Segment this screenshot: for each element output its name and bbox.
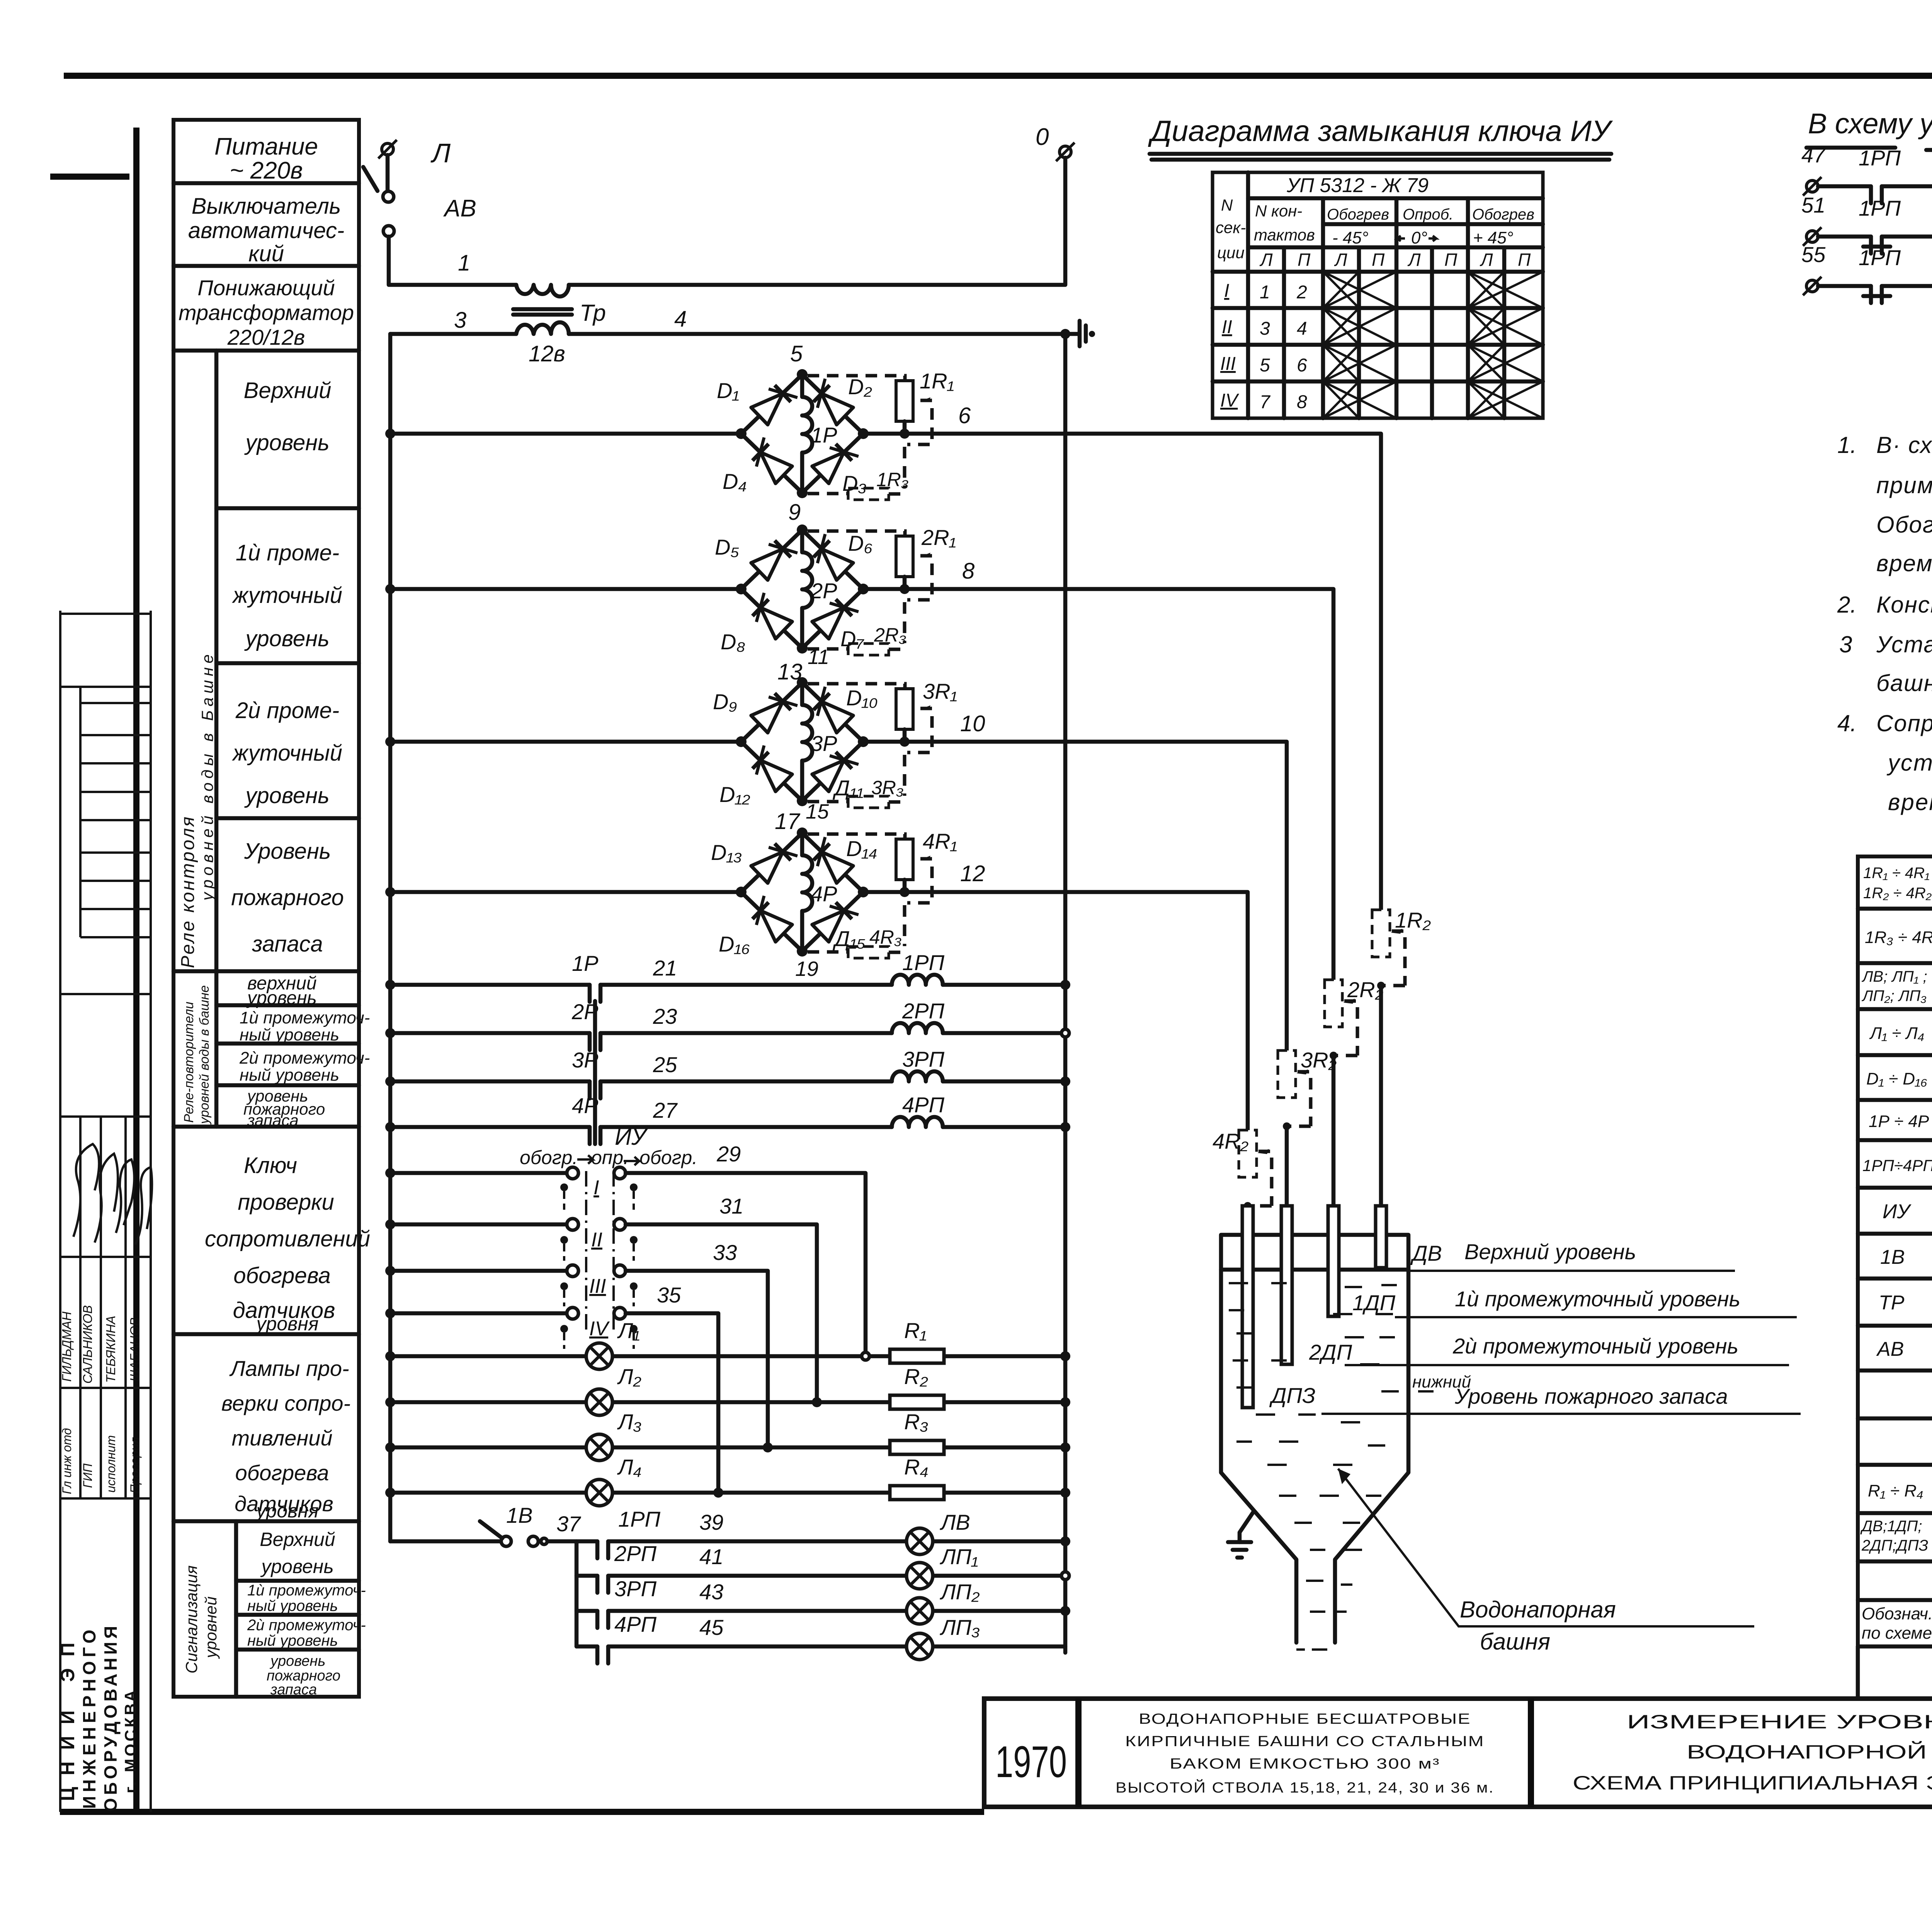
svg-text:жуточный: жуточный — [231, 583, 342, 608]
row 39 contact 1РП lamp ЛВ — [597, 1507, 1070, 1558]
svg-text:ИНЖЕНЕРНОГО: ИНЖЕНЕРНОГО — [79, 1626, 99, 1809]
svg-text:47: 47 — [1801, 143, 1826, 167]
svg-text:Л: Л — [1407, 250, 1421, 270]
signatures scribbles — [73, 1144, 99, 1237]
svg-text:жуточный: жуточный — [231, 741, 342, 766]
svg-text:- 45°: - 45° — [1332, 228, 1368, 247]
svg-text:Верхний уровень: Верхний уровень — [1464, 1239, 1636, 1264]
water hatching — [1229, 1283, 1434, 1612]
transformer Тр — [513, 285, 606, 366]
bridge rectifier 1Р with 1R1 1R3 — [385, 341, 954, 500]
heater resistor 4R2 — [1213, 1129, 1272, 1210]
svg-text:1РП: 1РП — [618, 1507, 660, 1531]
lamp row Л1 with resistor R1 — [385, 1318, 1070, 1369]
svg-text:3: 3 — [1260, 318, 1270, 339]
svg-text:1Р ÷ 4Р: 1Р ÷ 4Р — [1869, 1112, 1929, 1131]
svg-text:башня: башня — [1480, 1629, 1550, 1655]
level line 2ДП — [1345, 1334, 1789, 1365]
svg-text:ЛП₃: ЛП₃ — [940, 1615, 980, 1639]
svg-text:D₄: D₄ — [723, 469, 747, 494]
ground at transformer neutral — [1060, 321, 1095, 346]
svg-text:трансформатор: трансформатор — [179, 300, 354, 325]
svg-text:П: П — [1298, 250, 1311, 270]
svg-text:1R₃: 1R₃ — [876, 469, 909, 490]
svg-text:1В: 1В — [1880, 1246, 1905, 1268]
svg-text:ЛВ: ЛВ — [940, 1510, 970, 1534]
svg-text:ЦНИИ ЭП: ЦНИИ ЭП — [57, 1631, 78, 1801]
svg-text:13: 13 — [777, 659, 803, 684]
svg-text:3R₂: 3R₂ — [1301, 1048, 1337, 1072]
svg-text:4РП: 4РП — [902, 1093, 944, 1117]
svg-text:D₁₀: D₁₀ — [846, 686, 878, 710]
sensor electrode 1ДП — [1328, 1206, 1396, 1316]
svg-text:220/12в: 220/12в — [227, 325, 305, 349]
svg-text:1ѝ промежуточ-: 1ѝ промежуточ- — [247, 1582, 366, 1599]
svg-text:ДВ: ДВ — [1410, 1241, 1442, 1265]
svg-text:D₁: D₁ — [717, 378, 739, 403]
svg-text:~ 220в: ~ 220в — [230, 157, 303, 184]
svg-text:Л: Л — [430, 138, 451, 168]
svg-text:II: II — [1222, 317, 1232, 337]
svg-text:время резисторами R₁ ÷ R₄: время резисторами R₁ ÷ R₄ — [1876, 550, 1932, 576]
svg-text:4R₁: 4R₁ — [923, 829, 957, 853]
svg-text:1РП: 1РП — [1859, 245, 1901, 270]
svg-text:запаса: запаса — [252, 931, 323, 957]
sensor electrode ДВ — [1376, 1206, 1386, 1268]
svg-text:2РП: 2РП — [902, 999, 944, 1023]
row 41 contact 2РП lamp ЛП1 — [577, 1541, 1069, 1593]
svg-text:D₃: D₃ — [842, 471, 867, 495]
svg-text:D₂: D₂ — [848, 375, 872, 399]
left label table — [173, 120, 370, 1698]
svg-text:Проверил: Проверил — [128, 1437, 142, 1493]
svg-text:2.: 2. — [1837, 592, 1857, 618]
svg-text:4: 4 — [1297, 318, 1307, 339]
svg-text:R₃: R₃ — [904, 1410, 929, 1434]
level line 1ДП — [1395, 1287, 1797, 1317]
svg-text:башни см. черт. АВ-15: башни см. черт. АВ-15 — [1876, 670, 1932, 696]
svg-text:обогрева: обогрева — [235, 1461, 329, 1485]
svg-text:8: 8 — [962, 558, 975, 584]
key diagram table УП5312-Ж79 — [1213, 172, 1543, 418]
svg-text:ВОДОНАПОРНОЙ · БАШНИ: ВОДОНАПОРНОЙ · БАШНИ — [1687, 1741, 1932, 1763]
svg-text:R₂: R₂ — [904, 1364, 928, 1389]
svg-text:43: 43 — [699, 1580, 723, 1604]
svg-text:уровней воды в башне: уровней воды в башне — [197, 985, 212, 1125]
ИУ row IV / wire 35 — [385, 1283, 718, 1493]
svg-text:9: 9 — [788, 500, 801, 525]
svg-text:кий: кий — [248, 241, 284, 266]
svg-text:Установку датчиков в баке: Установку датчиков в баке водонапорной — [1876, 632, 1932, 657]
svg-text:2R₃: 2R₃ — [874, 624, 906, 646]
svg-text:уровень: уровень — [244, 626, 329, 651]
svg-text:55: 55 — [1801, 242, 1826, 267]
svg-text:23: 23 — [653, 1004, 677, 1028]
svg-text:Уровень: Уровень — [244, 839, 331, 864]
contact 1РП 55-57 — [1801, 242, 1932, 303]
svg-text:3РП: 3РП — [902, 1047, 944, 1071]
svg-text:51: 51 — [1801, 193, 1825, 217]
svg-text:17: 17 — [775, 809, 801, 834]
svg-text:В· схеме регулирования уровн: В· схеме регулирования уровня воды в баш… — [1876, 432, 1932, 458]
primary return wire to terminal 0 — [569, 158, 1065, 285]
svg-text:ВЫСОТОЙ СТВОЛА 15,18, 21, 24,: ВЫСОТОЙ СТВОЛА 15,18, 21, 24, 30 и 36 м. — [1116, 1779, 1494, 1796]
relay row 4Р/27 with coil 4РП — [385, 1093, 1070, 1144]
bridge rectifier 3Р — [385, 659, 957, 823]
svg-text:5: 5 — [1260, 355, 1270, 376]
svg-text:25: 25 — [653, 1052, 677, 1077]
notes Примечания — [1837, 384, 1932, 815]
svg-text:1R₁: 1R₁ — [920, 369, 954, 393]
svg-text:Питание: Питание — [214, 133, 318, 160]
svg-text:уровня: уровня — [255, 1313, 319, 1335]
wire 8 — [863, 558, 1333, 981]
svg-text:ТР: ТР — [1879, 1292, 1905, 1314]
terminal 0 — [1036, 124, 1075, 161]
svg-text:R₁ ÷ R₄: R₁ ÷ R₄ — [1868, 1481, 1923, 1500]
svg-text:I: I — [1224, 281, 1229, 301]
svg-text:3R₁: 3R₁ — [923, 679, 957, 703]
svg-text:12в: 12в — [529, 341, 565, 366]
svg-text:6: 6 — [958, 403, 971, 428]
svg-text:ЛВ; ЛП₁ ;: ЛВ; ЛП₁ ; — [1861, 968, 1927, 985]
svg-text:уровня: уровня — [255, 1500, 319, 1522]
svg-text:Сигнализация: Сигнализация — [182, 1565, 201, 1674]
svg-text:Обогрев датчиков производитс: Обогрев датчиков производится в зимнее — [1876, 512, 1932, 538]
wire 10 — [863, 711, 1287, 1051]
ИУ row I / wire 29 — [385, 1142, 866, 1356]
svg-text:КИРПИЧНЫЕ БАШНИ СО СТАЛЬНЫМ: КИРПИЧНЫЕ БАШНИ СО СТАЛЬНЫМ — [1125, 1733, 1485, 1750]
svg-text:37: 37 — [556, 1512, 581, 1536]
svg-text:III: III — [589, 1275, 606, 1297]
svg-text:1ѝ промежуточный уровень: 1ѝ промежуточный уровень — [1455, 1287, 1740, 1311]
breaker АВ — [363, 155, 476, 237]
left supply bus — [388, 334, 393, 1541]
svg-text:1РП: 1РП — [902, 950, 944, 975]
svg-text:уровень: уровень — [244, 783, 329, 808]
svg-text:уровень: уровень — [260, 1556, 333, 1577]
svg-text:D₈: D₈ — [721, 630, 745, 654]
svg-text:Выключатель: Выключатель — [192, 194, 341, 219]
svg-text:1R₃ ÷ 4R₃: 1R₃ ÷ 4R₃ — [1865, 928, 1932, 947]
svg-text:1970: 1970 — [995, 1737, 1067, 1787]
svg-text:Уровень пожарного запаса: Уровень пожарного запаса — [1454, 1384, 1728, 1408]
svg-text:1РП: 1РП — [1859, 146, 1901, 170]
svg-text:2ѝ проме-: 2ѝ проме- — [235, 698, 339, 723]
water tower tank — [1221, 1235, 1408, 1650]
svg-text:уровень: уровень — [246, 988, 317, 1008]
svg-text:уровень: уровень — [269, 1653, 325, 1669]
svg-text:АВ: АВ — [443, 195, 476, 222]
wire 4 — [569, 306, 1065, 334]
svg-text:3Р: 3Р — [811, 731, 837, 756]
contact 1РП 47-49 — [1801, 143, 1932, 203]
svg-text:3R₃: 3R₃ — [871, 777, 904, 798]
lamp row Л3 with resistor R3 — [385, 1410, 1070, 1461]
svg-text:Л: Л — [1259, 250, 1273, 270]
svg-text:пожарного: пожарного — [231, 885, 344, 910]
svg-text:3: 3 — [1839, 632, 1852, 657]
svg-text:D₁₆: D₁₆ — [719, 932, 750, 956]
svg-text:4: 4 — [674, 306, 687, 332]
svg-text:САЛЬНИКОВ: САЛЬНИКОВ — [80, 1305, 95, 1384]
svg-text:Обогрев: Обогрев — [1327, 206, 1389, 223]
svg-text:4РП: 4РП — [614, 1612, 656, 1636]
svg-text:тактов: тактов — [1254, 226, 1315, 244]
svg-text:3: 3 — [454, 308, 466, 333]
svg-text:8: 8 — [1297, 392, 1307, 412]
svg-text:N кон-: N кон- — [1255, 202, 1302, 220]
svg-text:СХЕМА ПРИНЦИПИАЛЬНАЯ ЭЛЕК: СХЕМА ПРИНЦИПИАЛЬНАЯ ЭЛЕКТРИЧЕСКАЯ — [1573, 1772, 1932, 1794]
svg-text:П: П — [1518, 250, 1531, 270]
switch 1В and node 37 — [390, 1503, 597, 1546]
wire 3 — [390, 308, 516, 334]
svg-text:2ДП: 2ДП — [1309, 1340, 1352, 1364]
svg-text:21: 21 — [653, 956, 677, 980]
svg-text:1РП÷4РП: 1РП÷4РП — [1862, 1156, 1932, 1175]
svg-text:D₇: D₇ — [840, 627, 864, 651]
svg-text:ции: ции — [1217, 243, 1245, 262]
svg-text:сек-: сек- — [1216, 218, 1246, 237]
relay row 3Р/25 with coil 3РП — [385, 1047, 1070, 1098]
svg-text:D₆: D₆ — [848, 531, 872, 555]
svg-text:45: 45 — [699, 1615, 724, 1639]
svg-text:+ 45°: + 45° — [1473, 228, 1513, 247]
svg-text:1ѝ промежуточ-: 1ѝ промежуточ- — [240, 1008, 370, 1027]
svg-text:Реле контроля: Реле контроля — [178, 815, 198, 968]
svg-text:ный уровень: ный уровень — [247, 1632, 338, 1649]
svg-text:2R₁: 2R₁ — [921, 525, 956, 550]
middle neutral bus — [1063, 334, 1068, 1653]
svg-text:2ДП;ДПЗ: 2ДП;ДПЗ — [1861, 1537, 1928, 1554]
svg-text:П: П — [1444, 250, 1458, 270]
svg-text:запаса: запаса — [270, 1682, 317, 1698]
svg-text:Обогрев: Обогрев — [1472, 206, 1534, 223]
terminal Л — [378, 138, 451, 168]
svg-text:7: 7 — [1260, 392, 1271, 412]
tank ground — [1228, 1511, 1254, 1558]
svg-text:Понижающий: Понижающий — [197, 276, 335, 300]
svg-text:0: 0 — [1036, 124, 1049, 150]
svg-text:Лампы про-: Лампы про- — [229, 1356, 349, 1381]
svg-text:1Р: 1Р — [811, 423, 837, 447]
svg-text:ШАБАНОВ: ШАБАНОВ — [128, 1318, 142, 1382]
svg-text:Сопротивления, показанные п: Сопротивления, показанные пунктиром , — [1876, 710, 1932, 736]
svg-text:Водонапорная: Водонапорная — [1460, 1597, 1616, 1622]
svg-text:D₁₂: D₁₂ — [719, 782, 750, 807]
svg-text:1: 1 — [1260, 282, 1270, 303]
callout водонапорная башня — [1338, 1469, 1754, 1655]
svg-text:2ѝ промежуточ-: 2ѝ промежуточ- — [247, 1617, 366, 1634]
svg-text:время наладки.: время наладки. — [1888, 789, 1932, 815]
svg-text:Л: Л — [1480, 250, 1493, 270]
svg-text:5: 5 — [790, 341, 803, 366]
svg-text:D₅: D₅ — [715, 535, 739, 559]
svg-text:31: 31 — [719, 1194, 743, 1218]
svg-text:обогр.: обогр. — [639, 1147, 697, 1168]
wire 1 — [389, 237, 516, 285]
svg-text:Гл инж отд: Гл инж отд — [60, 1428, 74, 1494]
svg-text:автоматичес-: автоматичес- — [188, 218, 344, 243]
svg-text:ВОДОНАПОРНЫЕ БЕСШАТРОВЫЕ: ВОДОНАПОРНЫЕ БЕСШАТРОВЫЕ — [1139, 1711, 1471, 1727]
svg-text:Обознач.: Обознач. — [1862, 1604, 1932, 1623]
svg-text:ЛП₂; ЛП₃: ЛП₂; ЛП₃ — [1861, 987, 1927, 1004]
svg-text:35: 35 — [657, 1283, 681, 1307]
svg-text:применяются датчики уровня: применяются датчики уровня с обогревом. — [1876, 472, 1932, 498]
svg-text:сопротивлений: сопротивлений — [205, 1226, 370, 1251]
section title В схему управления — [1806, 107, 1932, 150]
svg-text:2ѝ промежуточ-: 2ѝ промежуточ- — [239, 1049, 370, 1067]
wire 6 — [863, 403, 1381, 910]
svg-text:исполнит: исполнит — [104, 1435, 118, 1493]
left stamp column — [57, 611, 152, 1812]
svg-text:Тр: Тр — [580, 300, 606, 326]
svg-text:4R₂: 4R₂ — [1213, 1129, 1248, 1153]
svg-text:3РП: 3РП — [614, 1577, 656, 1601]
svg-text:39: 39 — [699, 1510, 723, 1534]
svg-text:11: 11 — [808, 645, 829, 669]
svg-text:1R₁ ÷ 4R₁: 1R₁ ÷ 4R₁ — [1863, 865, 1930, 882]
svg-text:П: П — [1372, 250, 1385, 270]
svg-text:устанавливаются при необход: устанавливаются при необходимости во — [1886, 750, 1932, 776]
svg-text:12: 12 — [960, 861, 985, 886]
svg-text:ОБОРУДОВАНИЯ: ОБОРУДОВАНИЯ — [100, 1623, 121, 1812]
svg-text:Л₂: Л₂ — [617, 1364, 641, 1389]
row 43 contact 3РП lamp ЛП2 — [577, 1577, 1070, 1628]
svg-text:уровень: уровень — [244, 430, 329, 455]
svg-text:2РП: 2РП — [614, 1541, 656, 1566]
svg-text:4R₃: 4R₃ — [869, 926, 902, 948]
svg-text:1Р: 1Р — [572, 951, 599, 976]
svg-text:1РП: 1РП — [1859, 196, 1901, 220]
lamp row Л2 with resistor R2 — [385, 1364, 1070, 1415]
svg-text:4Р: 4Р — [811, 882, 837, 906]
ИУ row III / wire 33 — [385, 1240, 768, 1447]
svg-text:верки сопро-: верки сопро- — [221, 1391, 350, 1415]
relay row 2Р/23 with coil 2РП — [385, 999, 1069, 1050]
svg-text:1R₂: 1R₂ — [1395, 908, 1431, 932]
svg-text:IV: IV — [1220, 390, 1239, 411]
svg-text:г. МОСКВА: г. МОСКВА — [121, 1688, 139, 1793]
svg-text:Д₁₅: Д₁₅ — [832, 926, 866, 951]
svg-text:Л₃: Л₃ — [617, 1410, 642, 1434]
svg-text:ный уровень: ный уровень — [247, 1597, 338, 1614]
svg-text:ДПЗ: ДПЗ — [1269, 1383, 1315, 1408]
svg-text:Верхний: Верхний — [244, 378, 332, 403]
svg-text:ный уровень: ный уровень — [240, 1066, 339, 1084]
equipment list table — [1858, 856, 1932, 1699]
svg-text:УП 5312 - Ж 79: УП 5312 - Ж 79 — [1286, 174, 1429, 197]
svg-text:ИЗМЕРЕНИЕ УРОВНЯ В БАК: ИЗМЕРЕНИЕ УРОВНЯ В БАКЕ — [1627, 1711, 1932, 1733]
svg-text:ный уровень: ный уровень — [240, 1025, 339, 1044]
heater resistor 1R2 — [1372, 908, 1431, 1206]
svg-text:ЛП₁: ЛП₁ — [940, 1544, 978, 1569]
relay row 1Р/21 with coil 1РП — [385, 950, 1070, 1002]
svg-text:Верхний: Верхний — [260, 1529, 335, 1550]
svg-text:R₁: R₁ — [904, 1318, 927, 1343]
svg-text:Диаграмма замыкания ключа И: Диаграмма замыкания ключа ИУ — [1148, 115, 1613, 148]
svg-text:N: N — [1221, 196, 1233, 214]
sensor electrode 2ДП — [1281, 1206, 1352, 1364]
bridge rectifier 4Р — [385, 809, 957, 981]
fire-control contact rows — [1801, 143, 1932, 303]
heater resistor 3R2 — [1278, 1048, 1337, 1206]
svg-text:ИУ: ИУ — [1883, 1200, 1912, 1223]
lamp row Л4 with resistor R4 — [385, 1455, 1070, 1506]
svg-text:1ѝ проме-: 1ѝ проме- — [236, 540, 339, 565]
title block — [984, 1699, 1932, 1807]
svg-text:ГИЛЬДМАН: ГИЛЬДМАН — [60, 1311, 74, 1382]
svg-text:тивлений: тивлений — [232, 1426, 333, 1450]
bridge rectifier 2Р — [385, 500, 956, 669]
svg-text:Реле-повторители: Реле-повторители — [182, 1002, 196, 1123]
row 45 contact 4РП lamp ЛП3 — [577, 1612, 1065, 1663]
svg-text:15: 15 — [806, 800, 829, 823]
svg-text:4.: 4. — [1837, 710, 1857, 736]
svg-text:ГИП: ГИП — [81, 1463, 95, 1488]
svg-text:19: 19 — [795, 957, 818, 981]
ИУ row II / wire 31 — [385, 1194, 817, 1402]
svg-text:27: 27 — [653, 1098, 678, 1122]
svg-text:0°: 0° — [1411, 228, 1427, 247]
svg-text:1R₂ ÷ 4R₂: 1R₂ ÷ 4R₂ — [1863, 885, 1932, 902]
svg-text:2: 2 — [1296, 282, 1307, 303]
svg-text:III: III — [1220, 354, 1236, 374]
svg-text:R₄: R₄ — [904, 1455, 929, 1479]
heater resistor 2R2 — [1325, 977, 1383, 1206]
svg-text:1В: 1В — [506, 1503, 533, 1527]
svg-text:уровней воды в Башне: уровней воды в Башне — [198, 650, 216, 902]
svg-text:Л: Л — [1334, 250, 1347, 270]
svg-text:ТЕБЯКИНА: ТЕБЯКИНА — [104, 1316, 118, 1383]
svg-text:2R₂: 2R₂ — [1347, 977, 1383, 1002]
svg-text:по схеме: по схеме — [1862, 1624, 1932, 1643]
svg-text:Д₁₁: Д₁₁ — [832, 776, 864, 800]
svg-text:I: I — [594, 1176, 599, 1199]
svg-text:В схему управления хозпротив: В схему управления хозпротивопожарными а… — [1808, 107, 1932, 140]
svg-text:БАКОМ ЕМКОСТЬЮ 300 м³: БАКОМ ЕМКОСТЬЮ 300 м³ — [1170, 1756, 1440, 1772]
svg-text:10: 10 — [960, 711, 985, 736]
svg-text:Л₁ ÷ Л₄: Л₁ ÷ Л₄ — [1869, 1024, 1924, 1043]
svg-text:2Р: 2Р — [810, 579, 837, 603]
svg-text:Л₁: Л₁ — [617, 1318, 640, 1343]
level line ДВ — [1410, 1239, 1735, 1271]
svg-text:II: II — [591, 1229, 602, 1251]
svg-text:Конструкцию датчика уровня: Конструкцию датчика уровня см. на черт. … — [1876, 592, 1932, 618]
svg-text:1ДП: 1ДП — [1352, 1290, 1396, 1315]
svg-text:проверки: проверки — [238, 1190, 334, 1215]
svg-text:1.: 1. — [1837, 432, 1857, 458]
chain for rows 41-45 — [575, 1541, 579, 1646]
contact 1РП 51-53 — [1801, 193, 1932, 254]
svg-text:D₁ ÷ D₁₆: D₁ ÷ D₁₆ — [1866, 1069, 1927, 1088]
svg-text:АВ: АВ — [1876, 1338, 1904, 1360]
svg-text:41: 41 — [699, 1544, 723, 1569]
svg-text:запаса: запаса — [247, 1111, 299, 1129]
svg-text:IV: IV — [589, 1318, 610, 1340]
svg-text:D₉: D₉ — [713, 690, 737, 714]
svg-text:1: 1 — [458, 250, 470, 276]
svg-text:уровней: уровней — [202, 1597, 220, 1659]
svg-text:обогр.: обогр. — [520, 1147, 578, 1168]
svg-text:D₁₄: D₁₄ — [846, 836, 878, 861]
svg-text:33: 33 — [713, 1240, 737, 1265]
svg-text:Опроб.: Опроб. — [1403, 206, 1453, 223]
svg-text:6: 6 — [1297, 355, 1307, 376]
svg-text:ЛП₂: ЛП₂ — [940, 1580, 980, 1604]
svg-text:ИУ: ИУ — [615, 1124, 648, 1150]
svg-text:обогрева: обогрева — [233, 1263, 331, 1288]
